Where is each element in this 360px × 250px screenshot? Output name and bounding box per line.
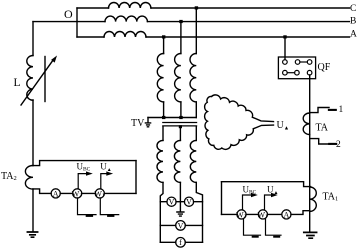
ground main left — [27, 232, 37, 237]
wire below L — [32, 100, 34, 166]
wire secondary mid tail — [179, 182, 181, 201]
arrowhead UBC left — [86, 171, 93, 175]
inductor L coil — [27, 56, 33, 101]
wire TA tap 2 — [310, 139, 330, 144]
TV primary coil 2 — [175, 54, 181, 102]
wire TV ground hook — [147, 118, 149, 123]
TV primary coil 3 — [190, 54, 196, 102]
QF contact bottom-mid — [295, 70, 300, 75]
wattmeter W2 right — [237, 210, 246, 219]
QF link bottom — [287, 72, 294, 74]
svg-text:U▲: U▲ — [267, 184, 278, 196]
junction dot star bus 2 — [179, 116, 182, 119]
svg-text:UBC: UBC — [77, 161, 91, 172]
TV primary drop wire a — [163, 37, 165, 54]
svg-text:O: O — [64, 7, 73, 21]
wire phase B with left branch to L — [33, 21, 350, 23]
TV secondary coil 3 — [190, 140, 196, 182]
wire TV star bus — [148, 117, 196, 119]
svg-text:V: V — [186, 198, 192, 207]
wire secondary left rail — [160, 182, 163, 242]
breaker QF box — [278, 57, 315, 79]
reactor coil on phase C — [109, 2, 151, 8]
svg-text:2: 2 — [336, 140, 341, 150]
svg-text:A: A — [284, 210, 290, 219]
wattmeter W1 left — [95, 189, 104, 198]
phasor arrow UA right — [265, 195, 272, 210]
wire TA tap 1 — [310, 108, 329, 113]
TV primary drop wire b — [180, 22, 182, 54]
hook ground W2 left — [78, 198, 97, 215]
ground TV — [145, 123, 150, 127]
svg-text:QF: QF — [318, 62, 331, 73]
TV primary drop wire c — [195, 8, 197, 54]
junction dot QF tap — [283, 35, 286, 38]
dash W2 left — [87, 215, 92, 217]
svg-text:A: A — [53, 189, 59, 198]
wire phase C — [77, 7, 350, 9]
wire secondary right rail — [196, 182, 202, 242]
wire TA1 top tap to rail — [222, 182, 311, 187]
inductor L adjust arrow — [21, 60, 54, 106]
svg-text:f: f — [179, 238, 182, 247]
voltmeter V3 — [176, 221, 186, 231]
wire right group left rail — [221, 182, 223, 215]
reactor coil on phase B — [105, 16, 147, 22]
QF contact top-right — [307, 60, 312, 65]
phasor arrow UA left — [101, 174, 107, 189]
wire TA2 top tap and rail — [33, 161, 136, 166]
phasor arrow UBC left — [78, 174, 86, 189]
junction dot secondary mid — [179, 125, 182, 128]
junction dot line C tap — [195, 6, 198, 9]
svg-text:V: V — [178, 221, 184, 230]
svg-text:1: 1 — [339, 105, 344, 115]
junction dot line B tap — [179, 20, 182, 23]
arrowhead UBC right — [251, 193, 258, 197]
hook ground W2 right — [244, 219, 261, 235]
svg-text:TV: TV — [131, 118, 145, 129]
wire TA2 bottom tap — [33, 189, 51, 194]
wire f row — [160, 241, 202, 243]
svg-text:L: L — [14, 77, 21, 89]
TV primary coil 1 — [157, 54, 163, 102]
QF contact top-left — [283, 60, 288, 65]
TA terminal dash 1 — [329, 109, 336, 111]
TV secondary coil 1 — [157, 140, 163, 182]
QF link top — [300, 61, 307, 63]
hook ground W1 right — [266, 219, 282, 235]
wire phase A — [77, 36, 350, 38]
TV secondary coil 2 — [174, 140, 180, 182]
wire QF drop — [284, 37, 286, 60]
svg-text:A: A — [350, 30, 357, 40]
svg-text:U▲: U▲ — [100, 161, 111, 173]
frequency meter f — [176, 238, 186, 248]
arrowhead UA left — [106, 171, 113, 175]
wire left group row — [60, 192, 136, 194]
junction dot line A tap — [162, 35, 165, 38]
QF contact bottom-right — [307, 70, 312, 75]
svg-text:UBC: UBC — [243, 184, 257, 195]
dash W2 right — [253, 236, 258, 238]
QF contact bottom-left — [283, 70, 288, 75]
wire L branch vertical — [32, 22, 34, 56]
ground secondary mid — [177, 212, 184, 216]
node O bus — [76, 8, 78, 37]
wire TA1 bottom tap — [291, 211, 310, 215]
wattmeter W2 left — [73, 189, 82, 198]
TV core bars — [163, 123, 197, 126]
reactor coil on phase A — [104, 32, 146, 37]
svg-text:TA: TA — [316, 123, 329, 134]
svg-text:U▲: U▲ — [277, 120, 290, 132]
wire below TA2 — [32, 189, 34, 232]
phasor arrow UBC right — [243, 195, 252, 210]
wire V row 2 — [160, 224, 202, 226]
ammeter A right — [282, 210, 291, 219]
voltmeter V1 — [167, 197, 176, 206]
junction dot star bus 1 — [162, 116, 165, 119]
wire V row 1 — [160, 201, 202, 203]
dash W1 right — [274, 236, 279, 238]
TA terminal dash 2 — [329, 143, 336, 145]
voltmeter V2 — [184, 197, 193, 206]
wire TV primary tails — [164, 102, 197, 118]
ammeter A left — [51, 189, 60, 198]
svg-text:B: B — [350, 16, 356, 26]
svg-text:V: V — [169, 198, 175, 207]
arrowhead UA right — [271, 193, 278, 197]
inductor L core bar — [44, 57, 46, 102]
wattmeter W1 right — [258, 210, 267, 219]
dash W1 left — [108, 215, 113, 217]
current transformer TA — [303, 113, 310, 135]
hook ground W1 left — [100, 198, 118, 215]
svg-text:TA2: TA2 — [1, 171, 17, 182]
wire right group row — [222, 213, 282, 215]
current transformer TA1 — [310, 187, 317, 211]
wire TV secondary heads — [163, 127, 196, 141]
arrowhead L adjust — [51, 56, 57, 63]
current transformer TA2 — [25, 166, 33, 190]
wire left group right rail — [135, 161, 137, 194]
svg-text:TA1: TA1 — [323, 192, 339, 203]
QF contact top-mid — [295, 60, 300, 65]
ground main right — [304, 232, 317, 238]
svg-text:C: C — [350, 4, 356, 14]
wire mid ground stub — [179, 202, 181, 212]
wire main right line — [309, 75, 311, 232]
cloud network symbol — [205, 95, 274, 149]
